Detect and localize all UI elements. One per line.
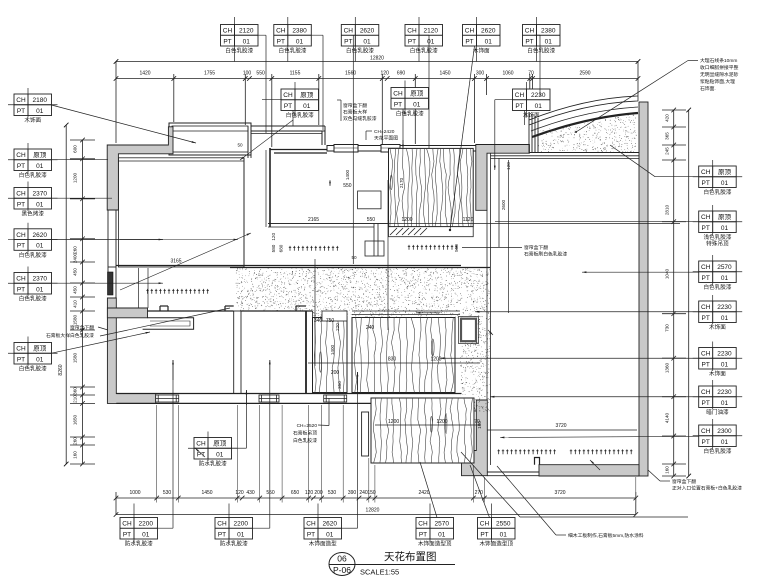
corridor lines mid (268, 191, 420, 256)
dim line right outer (686, 108, 691, 479)
vent box bottom wall 3 (324, 395, 347, 402)
label box CH2620 bottom3 (304, 518, 342, 540)
dim line overall 12820 top (116, 61, 638, 63)
label box CH2620 top3 (341, 25, 379, 47)
wall gray bottom-left L (107, 298, 155, 403)
label box CH2230 midtop3 (513, 89, 551, 111)
annotation CH=2420 (366, 129, 398, 142)
annotation top mid 3lines (337, 100, 377, 122)
wall top middle with windows (327, 145, 476, 153)
wall top-left balcony room (169, 123, 251, 155)
label box CH2550 bottom5 (478, 518, 516, 540)
bedroom cove step (143, 318, 194, 330)
label box CH2200 bottom2 (215, 518, 253, 540)
corridor south wall lines (116, 266, 490, 268)
annotation 窗帘盒 left mid (70, 324, 94, 331)
wall bottom opening lines (487, 472, 539, 476)
annotation left small (46, 332, 94, 339)
wood ceiling panel upper corridor (389, 148, 474, 226)
curtain marks row dining 1 (498, 449, 556, 454)
label box CH2300 right7 (699, 425, 737, 447)
title underline (329, 564, 455, 566)
label box CH2230 right5 (699, 348, 737, 370)
label box CH2380 top2 (274, 25, 312, 47)
door jamb lower mid (362, 412, 369, 456)
label box CH2380 top6 (523, 25, 561, 47)
wall gray L top-left (107, 127, 173, 210)
balcony curved roof top-right (529, 96, 648, 153)
wall mid-bottom vertical 2 thick (305, 311, 307, 394)
dims lower wood (308, 259, 480, 366)
ceiling line room2 (251, 133, 322, 135)
label box CH原顶 midtop2 (391, 88, 429, 110)
label box CH原顶 midbottom (194, 438, 232, 460)
label box CH2230 right6 (699, 386, 737, 408)
wall gray bedroom north (107, 308, 147, 318)
wall mid-bottom vertical 1 (234, 311, 241, 394)
curtain ledge above wood panels (322, 311, 460, 321)
annotation bottom right corner (672, 478, 742, 492)
annotation marble right top (700, 57, 739, 92)
title circle P-06 (329, 553, 355, 576)
vent box bottom wall 2 (259, 395, 279, 402)
label box CH2570 bottom4 (416, 518, 454, 540)
curtain marks row bedroom (146, 289, 209, 294)
label box CH2370 left5 (14, 273, 52, 295)
annotation CH=2520 (293, 423, 317, 444)
wall gray bottom-right band (539, 465, 639, 476)
leader lines top boxes (233, 35, 541, 264)
wood panel lower left (313, 318, 348, 393)
vent box bottom wall 1 (156, 395, 179, 402)
label box CH2570 right3 (699, 261, 737, 283)
label box CH2200 bottom1 (120, 518, 158, 540)
leaders bottom boxes (156, 360, 490, 528)
dim line segmented bottom (114, 492, 638, 515)
wall gray bottom mid block (462, 400, 488, 476)
dim line overall bottom (114, 512, 638, 517)
bedroom walls bottom (116, 394, 461, 404)
dim line segmented top (114, 59, 641, 147)
wall dining north inner lines (491, 156, 640, 159)
dim line right inner segmented (662, 108, 686, 479)
label box CH2120 top1 (221, 25, 259, 47)
strip below wood W1 (389, 227, 474, 237)
wall interior vertical x270 corridor (269, 148, 271, 227)
leaders right boxes (495, 145, 699, 222)
wall gray L mid (dining NW corner) (476, 145, 530, 211)
label box CH2370 left3 (14, 188, 52, 210)
label box CH2180 left1 (14, 94, 52, 116)
label box CH2230 right4 (699, 301, 737, 323)
leader midtop boxes (262, 100, 525, 147)
leader curtain annotation (461, 452, 688, 517)
leaders left boxes (52, 160, 113, 199)
label box CH原顶 right1 (699, 166, 737, 188)
wall interior vertical room2/living (244, 126, 251, 267)
label box CH2620 left4 (14, 229, 52, 251)
stipple texture balcony (538, 112, 638, 153)
dim line left outer 8260 (64, 123, 69, 467)
wall living south jamb black (108, 272, 114, 295)
label box CH2620 top5 (463, 25, 501, 47)
wood panel bottom (371, 398, 474, 463)
ceiling line living room border (118, 158, 244, 267)
leader marble (576, 61, 698, 133)
curtain marks row living (289, 246, 339, 251)
picture frame square (461, 319, 476, 342)
wood panel lower mid (352, 318, 455, 393)
assorted interior arrows (120, 239, 238, 241)
wall corridor north (270, 150, 327, 154)
label box CH原顶 right2 (699, 211, 737, 233)
dim 2165 line (268, 223, 680, 225)
leader CH2180 diagonal (52, 105, 197, 143)
curtain pocket verticals bedroom (139, 268, 148, 308)
wall gray right column (639, 102, 648, 476)
wall below jamb (108, 267, 116, 298)
label box CH原顶 left2 (14, 149, 52, 171)
wall top room2 north (251, 126, 325, 145)
bottom-right band step (535, 458, 540, 465)
label box CH原顶 midtop1 (281, 89, 319, 111)
curtain marks row dining 2 (570, 449, 633, 454)
label box CH2120 top4 (405, 25, 443, 47)
annotation bottom center (568, 532, 644, 539)
dim 3720 (487, 429, 637, 431)
dim 1200 1120 wood (387, 180, 389, 330)
dims bottom wood (375, 424, 480, 426)
dim line left inner segmented (70, 138, 95, 467)
wall dining west face (487, 153, 499, 465)
label box CH原顶 left6 (14, 343, 52, 365)
wall mid-bottom top edges (148, 306, 313, 311)
wall left living room west (108, 210, 116, 267)
dim 2600 (508, 160, 510, 313)
annotation curtain dining (524, 244, 567, 258)
curtain marks row corridor (408, 245, 458, 250)
